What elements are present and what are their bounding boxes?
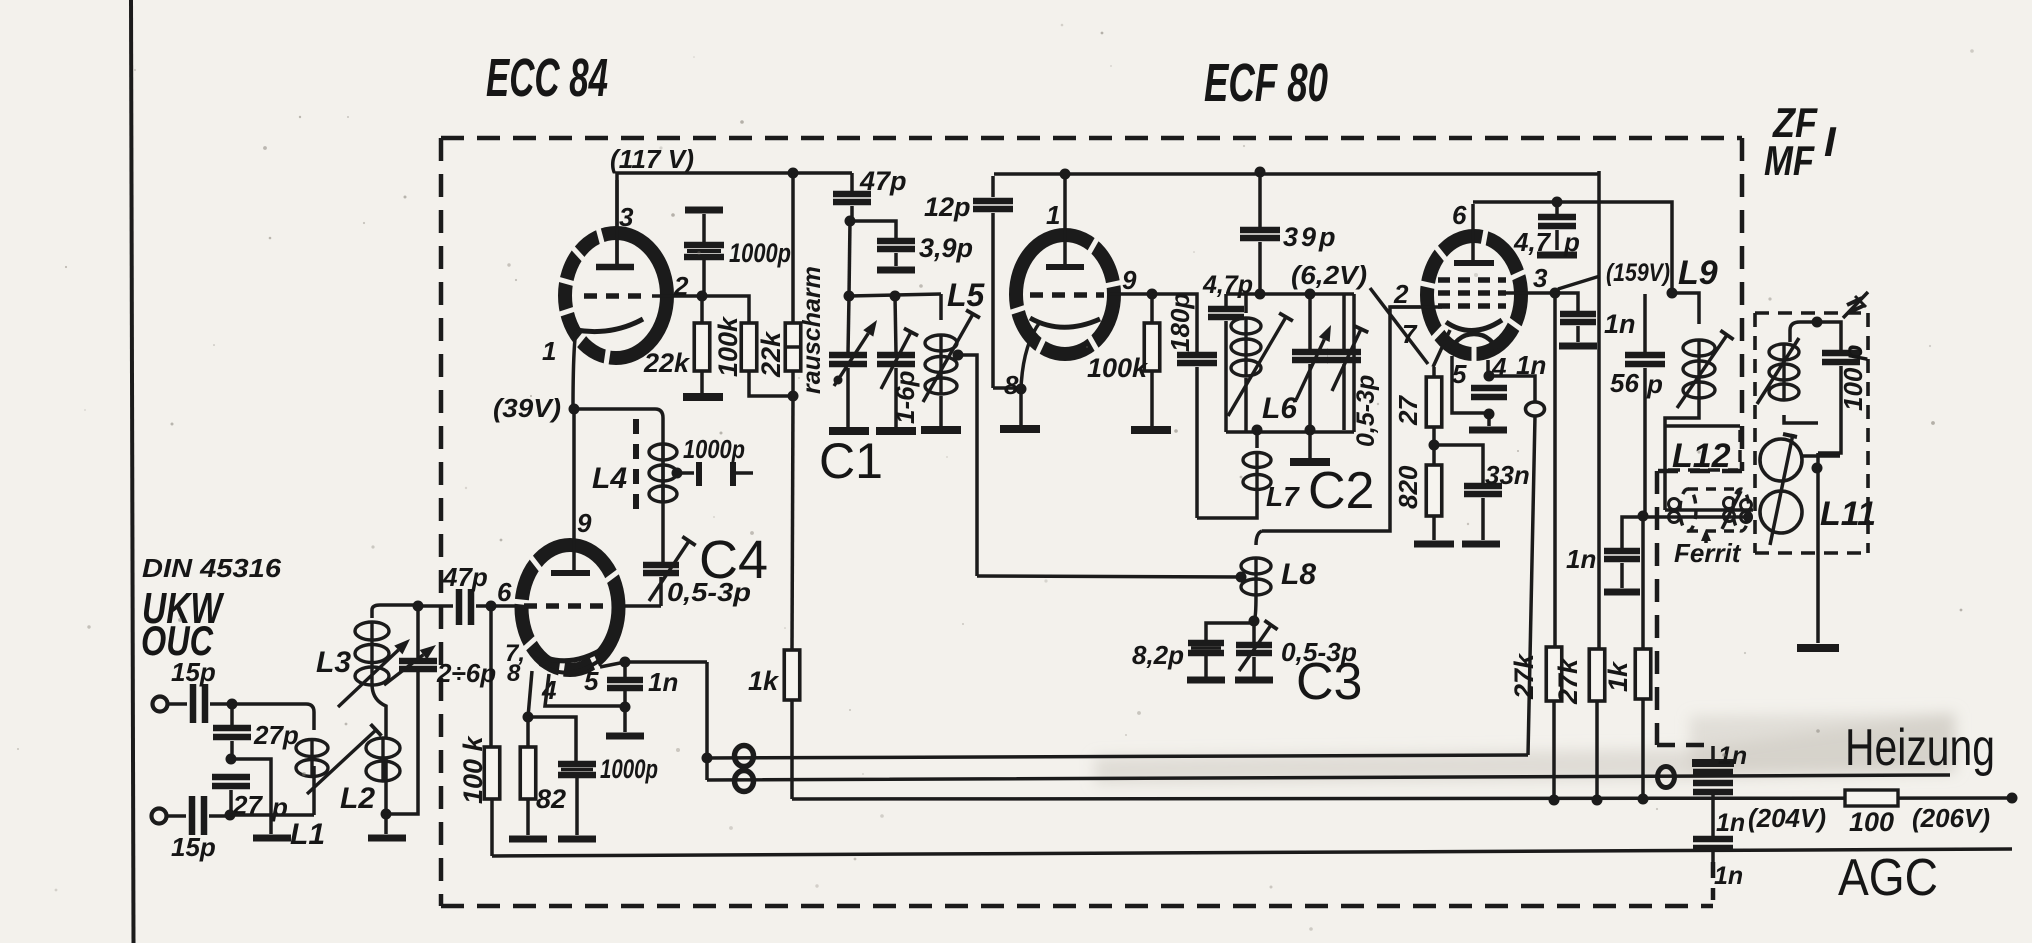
node dot anode lead — [1060, 169, 1071, 180]
corner trimmer X at L11 box — [1843, 292, 1868, 318]
trimmer 0,5-3p in tank — [1342, 294, 1346, 350]
trimmer C4 — [661, 515, 665, 562]
resistor 1k right — [1641, 518, 1645, 649]
svg-text:12p: 12p — [924, 192, 971, 222]
wire rauscharm node down to 1k — [792, 396, 793, 650]
wire cathode 7/8 down — [528, 671, 532, 717]
tube ECC84 triode system 1 — [565, 233, 667, 358]
trimmer capacitor C1-a — [848, 296, 849, 353]
label Ferrit with arrow — [1704, 533, 1708, 543]
wire pin4 node to phi line — [1489, 376, 1535, 402]
capacitor chain 1n top — [1711, 746, 1715, 759]
svg-text:9: 9 — [1122, 265, 1137, 295]
capacitor 47p tube2 grid — [418, 604, 453, 608]
node dot grid divider — [697, 291, 708, 302]
svg-text:1n: 1n — [648, 667, 678, 697]
wire pin5 to T bus corner — [600, 662, 707, 667]
node dot L11 top — [1812, 317, 1823, 328]
svg-text:(206V): (206V) — [1912, 803, 1990, 833]
node dot 39V — [569, 404, 580, 415]
node dots on tank bottom rail — [1252, 425, 1263, 436]
svg-text:6: 6 — [1452, 200, 1467, 230]
node dot T bus start — [702, 753, 713, 764]
capacitor 100p — [1822, 350, 1860, 357]
ground below L5 — [921, 426, 961, 434]
ground below L2 — [368, 835, 406, 842]
svg-text:2: 2 — [673, 271, 689, 301]
svg-text:100 p: 100 p — [1838, 344, 1868, 411]
svg-text:1000p: 1000p — [729, 238, 791, 268]
node dot L4 tap — [672, 468, 683, 479]
node dot antenna bottom — [225, 810, 236, 821]
svg-text:(39V): (39V) — [493, 393, 561, 423]
wire pin2 exit — [1390, 305, 1442, 309]
capacitor 1000p horizontal — [677, 471, 694, 475]
svg-text:AGC: AGC — [1838, 849, 1938, 907]
svg-text:27: 27 — [1393, 395, 1423, 426]
trimmer 2-6p — [416, 606, 420, 659]
tube1 cathode arc pin 1 — [576, 319, 643, 332]
tube3 cathode arc — [1030, 318, 1100, 327]
L9 adjuster arrow — [1677, 335, 1727, 408]
svg-text:1000p: 1000p — [683, 434, 745, 464]
node dot pin8 — [1016, 384, 1027, 395]
resistor 100 on H2 — [1845, 790, 1898, 806]
svg-text:2: 2 — [1393, 279, 1409, 309]
ground L11 — [1797, 644, 1839, 652]
capacitor 56p — [1643, 294, 1647, 352]
callout line 6,2V to pin7 — [1370, 288, 1428, 364]
dashed enclosure box — [439, 138, 444, 906]
tube2 cathode arc — [530, 647, 606, 661]
capacitor chain 1n bottom — [1711, 799, 1715, 836]
svg-text:15p: 15p — [171, 832, 216, 862]
svg-text:1n: 1n — [1566, 544, 1596, 574]
tube1 anode bar pin 3 — [596, 264, 634, 271]
node dot 27/820 — [1429, 440, 1440, 451]
antenna terminal bottom — [152, 809, 167, 824]
capacitor 180p — [1152, 294, 1197, 352]
terminal bar below 4,7p — [1537, 252, 1577, 259]
ground below 1000p — [558, 836, 596, 843]
capacitor 39p — [1258, 172, 1262, 227]
resistor 100k — [741, 323, 757, 371]
capacitor chain 1n mid — [1693, 780, 1733, 787]
wire cathode pin 8 down — [1021, 322, 1040, 388]
wire C3 bracket — [1206, 623, 1254, 642]
svg-text:1k: 1k — [1603, 660, 1633, 692]
wire L11 down to ground — [1816, 453, 1820, 643]
wire C1 top rail to L5 — [849, 294, 941, 296]
ferrite adjust diagonal — [1722, 491, 1741, 529]
C1-a adjuster arrow — [834, 333, 868, 386]
wire 117V bus — [617, 173, 852, 266]
svg-text:L9: L9 — [1678, 254, 1718, 292]
ground below 1n pin5 — [606, 733, 644, 740]
svg-text:3: 3 — [619, 202, 634, 232]
svg-text:L7: L7 — [1266, 481, 1300, 512]
tube ECF80 pentode — [1427, 236, 1521, 354]
pentode cathode arc — [1446, 320, 1502, 331]
capacitor 1n at pin3 — [1555, 293, 1578, 311]
node dot rauscharm — [788, 391, 799, 402]
trimmer mid in tank — [1308, 294, 1312, 350]
wire pin5 feed down — [705, 662, 709, 758]
resistor 82 — [526, 717, 530, 747]
tube2 anode bar pin 9 — [551, 570, 590, 576]
wire L5 tap down to L8 tap rail — [958, 355, 977, 576]
capacitor 15p bottom — [167, 814, 186, 818]
terminal bar below C3 — [1235, 677, 1273, 684]
page left border line — [131, 0, 134, 943]
wire grid pin 9 — [1110, 292, 1152, 296]
svg-text:p: p — [1646, 369, 1663, 399]
wire 27k2 to H2 — [1595, 701, 1599, 800]
svg-text:3,9p: 3,9p — [919, 233, 973, 263]
svg-text:22k: 22k — [756, 330, 786, 378]
inductor L4 — [661, 418, 665, 494]
wire pin3 exit — [1504, 291, 1555, 295]
svg-text:1: 1 — [1046, 200, 1060, 230]
svg-text:27k: 27k — [1509, 652, 1539, 700]
resistor 1k (cathode line) — [784, 650, 800, 700]
wire circle top to L11 rail — [1802, 454, 1840, 458]
inductor L7 — [1255, 432, 1259, 448]
wire 27k to H2 — [1552, 701, 1556, 800]
svg-text:8,2p: 8,2p — [1132, 640, 1184, 670]
terminal bar below 3,9p — [877, 267, 915, 274]
node dot at 47p line — [413, 601, 424, 612]
svg-text:5: 5 — [1452, 359, 1467, 389]
resistor 100k (triode grid) — [1150, 294, 1154, 323]
C3 adjuster — [1239, 625, 1271, 671]
svg-text:Ferrit: Ferrit — [1674, 538, 1742, 568]
pentode bottom arc — [1452, 334, 1496, 353]
node dot L2 bottom — [381, 809, 392, 820]
node dot grid/100k — [486, 601, 497, 612]
pentode grid rows — [1438, 277, 1506, 283]
svg-text:9: 9 — [577, 508, 592, 538]
node dot L8 bottom — [1249, 616, 1260, 627]
capacitor 1000p cathode — [528, 717, 576, 761]
wire grid pin2 to divider — [652, 296, 749, 323]
svg-text:(6,2V): (6,2V) — [1291, 260, 1367, 290]
svg-text:2÷6p: 2÷6p — [436, 658, 496, 688]
capacitor 27p lower — [212, 774, 250, 781]
svg-text:0,5-3p: 0,5-3p — [667, 577, 751, 607]
capacitor 4,7p in tank left leg — [1224, 294, 1228, 307]
connector ring on T bus — [735, 746, 754, 767]
svg-text:(159V): (159V) — [1606, 259, 1670, 287]
resistor 27k second — [1589, 649, 1605, 701]
L3 adjuster arrow — [338, 650, 398, 707]
wire 47p node down to C1 — [849, 221, 850, 296]
node dot on 117V bus — [788, 168, 799, 179]
wire cathode pin1 down to 39V node — [573, 330, 576, 409]
capacitor 1n cathode — [1486, 360, 1490, 374]
C1-b adjuster — [881, 332, 911, 389]
wire to 3,9p — [850, 221, 896, 238]
node dot screen 4,7p — [1552, 197, 1563, 208]
svg-text:1: 1 — [542, 336, 556, 366]
node dot C1 right — [890, 291, 901, 302]
capacitor 27p upper — [230, 704, 234, 725]
wire antenna bottom to L1 — [230, 813, 314, 817]
trimmer circle top — [1760, 439, 1802, 481]
wire 1n to ground — [623, 707, 627, 732]
inductor L5 — [939, 294, 943, 320]
terminal bar below 1n pin3 — [1559, 343, 1597, 350]
tube3 anode bar — [1046, 264, 1084, 270]
tube ECF80 triode — [1016, 235, 1114, 354]
node dot 39p lead — [1255, 167, 1266, 178]
wire L3 top to 47p line — [372, 605, 418, 610]
ferrite winding loops — [1669, 499, 1680, 510]
trimmer circle bottom — [1760, 491, 1802, 533]
wire inner box right edge — [1597, 171, 1601, 649]
inductor L9 — [1672, 293, 1699, 324]
svg-text:1n: 1n — [1714, 862, 1743, 890]
wire L8 tap rail to L5 — [977, 576, 1241, 577]
wire ECF80 anode bus — [994, 172, 1599, 176]
connector ring on H1 bus — [735, 771, 754, 792]
svg-text:L2: L2 — [340, 782, 375, 815]
resistor 100k AGC leak — [489, 606, 493, 747]
svg-text:15p: 15p — [171, 657, 216, 687]
terminal bar above 1000p — [685, 207, 723, 214]
svg-text:(204V): (204V) — [1748, 803, 1826, 833]
ground below 33n — [1462, 541, 1500, 548]
wire H1 Heizung bus — [707, 758, 1950, 780]
svg-text:L4: L4 — [592, 462, 627, 495]
antenna terminal top — [153, 697, 168, 712]
svg-text:56: 56 — [1610, 368, 1639, 398]
inductor L11 coil — [1788, 330, 1792, 342]
svg-text:p: p — [271, 792, 288, 822]
terminal bar below 1n — [1604, 589, 1640, 596]
svg-text:6: 6 — [497, 577, 512, 607]
trimmer C3 0,5-3p — [1252, 623, 1256, 643]
tube2 inner arc — [540, 660, 600, 673]
svg-text:27p: 27p — [253, 720, 299, 750]
callout line 159V — [1558, 276, 1600, 289]
svg-text:1n: 1n — [1716, 809, 1745, 837]
svg-text:100: 100 — [1849, 807, 1894, 837]
svg-text:ECC 84: ECC 84 — [486, 48, 608, 108]
tube1 grid dashed pin 2 — [584, 293, 648, 299]
ground below 820 — [1414, 541, 1454, 548]
node dot pin3 — [1550, 288, 1561, 299]
capacitor 15p top — [168, 702, 187, 706]
wire pin7 cathode to resistor 27 — [1433, 330, 1450, 367]
0,5-3p adjuster — [1332, 329, 1361, 391]
ground below 82 — [509, 836, 547, 843]
node dot divider mid — [226, 754, 237, 765]
svg-text:1n: 1n — [1604, 309, 1636, 339]
capacitor 8,2p — [1188, 640, 1224, 647]
wire pin8 ground — [1019, 389, 1023, 425]
ferrite winding wires — [1665, 508, 1753, 512]
svg-text:ECF 80: ECF 80 — [1204, 53, 1328, 113]
L11 coil adjuster — [1757, 338, 1799, 404]
svg-text:Heizung: Heizung — [1845, 719, 1995, 777]
svg-text:180p: 180p — [1165, 293, 1195, 352]
wire screen bus to L9 — [1473, 202, 1672, 293]
wire antenna top to L1 — [232, 704, 314, 712]
svg-text:C3: C3 — [1296, 653, 1362, 711]
wire L6 tank bottom rail — [1226, 430, 1354, 434]
node dot L8 tap — [1236, 572, 1247, 583]
svg-text:1k: 1k — [748, 666, 780, 696]
L2 adjuster — [307, 730, 376, 794]
wire L11 tank top — [1790, 322, 1841, 350]
svg-text:33n: 33n — [1485, 460, 1530, 490]
wire 1k to H2 bus — [790, 700, 794, 799]
wire tank right edge — [1352, 294, 1356, 432]
wire H2 bus (204V) — [792, 798, 2012, 799]
ground below C1-b — [876, 427, 916, 435]
ground mid tap — [253, 835, 291, 842]
ground below 1n cathode — [1469, 427, 1507, 434]
svg-text:47p: 47p — [442, 562, 488, 592]
wire trimmer bottom rail — [386, 672, 418, 814]
svg-text:100k: 100k — [713, 315, 743, 377]
wire 100k to AGC bus — [490, 799, 494, 856]
svg-text:47p: 47p — [859, 166, 907, 196]
svg-text:100k: 100k — [1087, 353, 1149, 383]
svg-text:1000p: 1000p — [600, 754, 658, 784]
svg-text:L5: L5 — [947, 277, 986, 313]
svg-text:MF: MF — [1764, 137, 1815, 184]
trimmer capacitor C1-b 1-6p — [895, 296, 896, 353]
node dot L5 tap — [953, 350, 964, 361]
wire T bus (heater) — [707, 755, 1528, 758]
svg-text:8: 8 — [1004, 370, 1019, 400]
resistor 27 — [1432, 367, 1436, 377]
wire L2 ground stub — [384, 814, 388, 834]
svg-text:(117 V): (117 V) — [610, 144, 694, 174]
wire mid tap to ground — [231, 759, 271, 834]
resistor 22k second (rauscharm chain) — [791, 173, 795, 323]
terminal bar below 8,2p — [1187, 677, 1225, 684]
svg-text:p: p — [1563, 227, 1580, 257]
wire 12p to cathode ground node — [993, 386, 1021, 390]
ground below 22k — [683, 393, 723, 401]
phi symbol — [1526, 402, 1545, 416]
resistor 22k (grid to ground) — [700, 296, 704, 323]
capacitor 1n at pin5 — [623, 662, 627, 677]
wire C4 to tube2 grid — [625, 604, 661, 608]
wire L6 tank top rail — [1226, 292, 1354, 296]
svg-text:27k: 27k — [1553, 657, 1583, 705]
node dot pin9 — [1147, 289, 1158, 300]
node dot L11 bottom — [1812, 463, 1823, 474]
ferrite core dashed cylinder — [1680, 489, 1696, 531]
svg-text:39p: 39p — [1283, 222, 1339, 252]
wire phi line down to T bus — [1528, 416, 1535, 755]
svg-text:82: 82 — [536, 784, 566, 814]
svg-text:L12: L12 — [1672, 437, 1731, 475]
node dot antenna top — [227, 699, 238, 710]
L4 dashed core — [633, 419, 639, 512]
ground below tank — [1308, 432, 1312, 458]
inductor L1 — [312, 712, 316, 730]
wire pin4 loop — [545, 674, 625, 706]
wire AGC bus — [492, 849, 2012, 856]
2-6p adjuster — [384, 655, 423, 685]
tube ECC84 triode system 2 — [522, 545, 619, 670]
inductor L6 — [1244, 294, 1248, 313]
capacitor 1n left of ferrit — [1622, 517, 1643, 548]
resistor 820 — [1432, 445, 1436, 465]
wire 1k to H2 — [1641, 699, 1645, 799]
capacitor 33n — [1434, 445, 1483, 484]
svg-text:22k: 22k — [643, 348, 691, 378]
L6 adjuster arrow — [1228, 317, 1286, 416]
paper speckles — [659, 146, 662, 149]
inductor L8 — [1256, 531, 1262, 545]
node dots on tank top rail — [1255, 289, 1266, 300]
svg-text:L1: L1 — [290, 818, 325, 851]
trimmer circles diagonal — [1770, 434, 1793, 545]
node dots on H2 — [1549, 795, 1560, 806]
ground below C1-a — [829, 427, 869, 435]
ground below pin 8 — [1000, 425, 1040, 433]
svg-text:8: 8 — [507, 660, 521, 687]
svg-text:4,7: 4,7 — [1513, 227, 1552, 257]
svg-text:C1: C1 — [819, 433, 883, 489]
svg-text:820: 820 — [1393, 465, 1423, 509]
node dot under 47p — [845, 216, 856, 227]
capacitor 12p — [991, 176, 995, 197]
svg-text:C2: C2 — [1308, 462, 1374, 520]
capacitor 4,7p screen — [1555, 202, 1559, 214]
capacitor 3,9p — [877, 238, 915, 245]
wire pin3 screen feed down — [1553, 293, 1557, 647]
tube3 grid dashed — [1030, 292, 1104, 298]
svg-text:L3: L3 — [316, 646, 351, 679]
node dot C1 left — [844, 291, 855, 302]
L12 label box — [1665, 424, 1740, 428]
inductor L2 — [381, 738, 384, 781]
pentode anode bar pin 6 — [1454, 260, 1494, 266]
svg-text:DIN 45316: DIN 45316 — [142, 553, 282, 583]
C4 adjuster — [649, 541, 689, 601]
node dot 56p bottom — [1638, 511, 1649, 522]
svg-text:L8: L8 — [1281, 558, 1316, 591]
svg-text:0,5-3p: 0,5-3p — [1352, 375, 1380, 447]
svg-text:rauscharm: rauscharm — [798, 266, 826, 394]
resistor 27k first — [1546, 647, 1562, 701]
connector ring theta on H1 — [1658, 767, 1675, 788]
capacitor 1000p (anode divider) — [702, 214, 706, 242]
ground below 100k — [1131, 426, 1171, 434]
node dot ferrit right — [1743, 512, 1753, 522]
wire pin2 feedback to L8 — [1262, 307, 1420, 531]
capacitor 47p on bus — [850, 173, 854, 191]
wire 39V node to L4 — [574, 409, 663, 418]
svg-text:L6: L6 — [1262, 392, 1297, 425]
wire pin5 branch — [1452, 356, 1489, 413]
svg-text:I: I — [1824, 118, 1837, 165]
L5 adjuster arrow — [923, 314, 973, 402]
svg-text:3: 3 — [1533, 263, 1548, 293]
inductor L3 — [370, 610, 374, 618]
svg-text:1n: 1n — [1718, 742, 1747, 770]
L11 dashed box — [1755, 311, 1868, 315]
tube2 grid dashed — [524, 603, 612, 609]
node dot L9 top — [1667, 288, 1678, 299]
